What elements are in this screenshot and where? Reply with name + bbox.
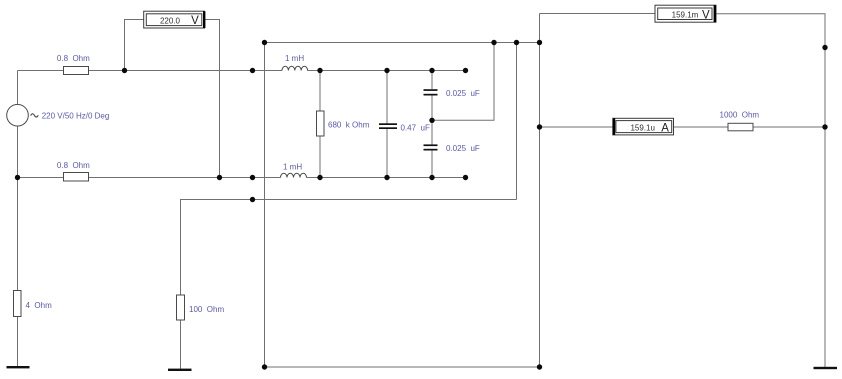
svg-text:V: V [191, 15, 199, 27]
svg-text:0.47 uF: 0.47 uF [401, 123, 430, 132]
svg-text:1 mH: 1 mH [283, 163, 302, 172]
svg-text:4 Ohm: 4 Ohm [26, 301, 53, 310]
svg-text:220.0: 220.0 [160, 17, 181, 26]
svg-text:680 k Ohm: 680 k Ohm [328, 120, 370, 129]
svg-text:0.8 Ohm: 0.8 Ohm [57, 54, 90, 63]
svg-text:V: V [702, 10, 710, 22]
svg-text:220 V/50 Hz/0 Deg: 220 V/50 Hz/0 Deg [42, 111, 110, 120]
svg-text:0.025 uF: 0.025 uF [446, 144, 480, 153]
svg-text:100 Ohm: 100 Ohm [189, 305, 224, 314]
svg-text:0.8 Ohm: 0.8 Ohm [57, 161, 90, 170]
svg-text:159.1m: 159.1m [672, 11, 699, 20]
svg-text:159.1u: 159.1u [630, 124, 654, 133]
svg-text:0.025 uF: 0.025 uF [446, 89, 480, 98]
svg-text:1000 Ohm: 1000 Ohm [720, 111, 760, 120]
svg-text:1 mH: 1 mH [285, 54, 304, 63]
svg-text:A: A [661, 122, 669, 134]
